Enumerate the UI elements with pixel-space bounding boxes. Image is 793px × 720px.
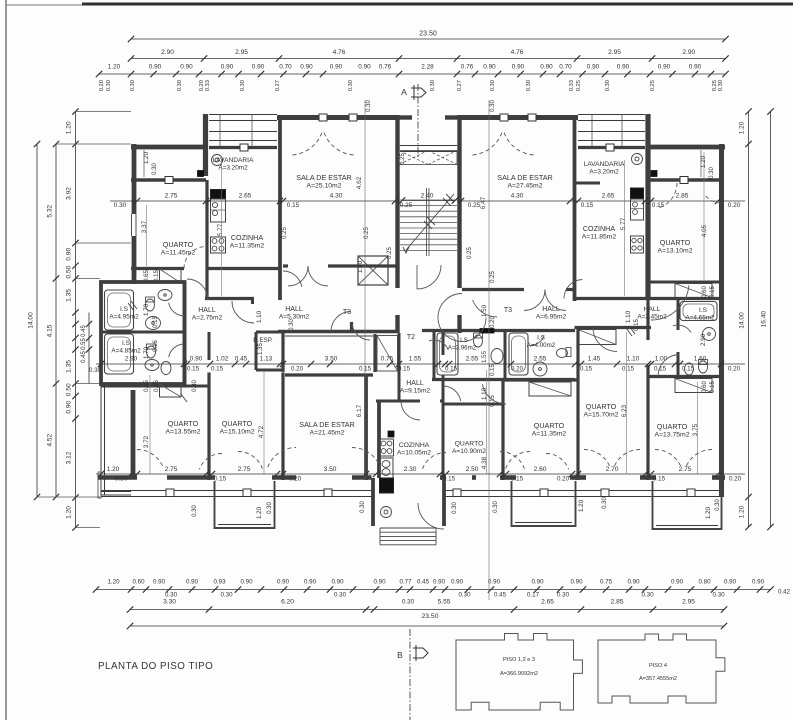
dim chain top small labels — [108, 64, 702, 71]
svg-text:1.70: 1.70 — [143, 303, 150, 316]
svg-text:A=21.45m2: A=21.45m2 — [310, 430, 345, 437]
bath block outline left — [101, 282, 185, 384]
dim chain bottom small labels — [107, 579, 764, 586]
door arc entry — [418, 503, 444, 529]
dim chain top segments — [128, 49, 729, 62]
room label QUARTO 10.90 — [452, 441, 486, 456]
svg-text:0.15: 0.15 — [154, 270, 160, 282]
svg-text:A=366.9092m2: A=366.9092m2 — [500, 671, 538, 677]
label T2 — [407, 334, 415, 341]
door arc isR door — [673, 325, 691, 332]
svg-text:0.55: 0.55 — [81, 338, 87, 350]
dim chain bottom small line — [96, 589, 771, 591]
dim chain top total 23.50 — [128, 31, 729, 43]
wall t2 hall left — [398, 333, 401, 401]
svg-text:0.15: 0.15 — [154, 380, 160, 392]
door arc quarto13.10b — [706, 196, 721, 203]
svg-text:23.50: 23.50 — [421, 613, 438, 620]
svg-text:HALL: HALL — [542, 306, 560, 313]
svg-text:0.90: 0.90 — [331, 579, 344, 586]
svg-text:2.55: 2.55 — [534, 356, 547, 363]
svg-text:0.30: 0.30 — [240, 80, 246, 91]
svg-text:0.25: 0.25 — [467, 247, 473, 259]
svg-text:0.90: 0.90 — [724, 579, 737, 586]
door arc quarto13.10 dashed — [658, 183, 677, 208]
svg-text:0.90: 0.90 — [330, 64, 343, 71]
svg-text:2.75: 2.75 — [238, 466, 251, 473]
wall hall5.30 bottom — [278, 322, 397, 336]
sink IS 4.00 — [533, 362, 547, 376]
wall bottom facade seg4 — [575, 475, 656, 480]
door arc quarto1135 door — [482, 384, 506, 404]
room label LAVANDARIA right — [584, 161, 625, 176]
svg-text:0.60: 0.60 — [702, 381, 708, 393]
door arc is400 door — [530, 336, 544, 346]
room label IS 4.85 — [89, 340, 141, 374]
svg-text:HALL: HALL — [285, 306, 303, 313]
dim chain right 14.00 — [739, 141, 752, 500]
dim chain top small ticks — [96, 71, 729, 77]
dim chain left col3 sub 0.45/0.55 — [81, 313, 92, 384]
balcony left strip railing — [98, 385, 131, 498]
wall hall5.30 top (sala bottom) — [283, 264, 399, 267]
room label LAVANDARIA left — [213, 157, 254, 172]
svg-text:6.17: 6.17 — [356, 404, 363, 417]
figure PISO 4 labels — [639, 663, 677, 682]
svg-text:0.42: 0.42 — [778, 589, 791, 596]
svg-text:T2: T2 — [407, 334, 415, 341]
svg-text:0.30: 0.30 — [402, 599, 415, 606]
wall quarto1 bottom / hall top — [131, 267, 280, 270]
svg-text:PISO 1,2 e 3: PISO 1,2 e 3 — [503, 657, 535, 663]
wall hall2.45/IS divider — [677, 299, 680, 378]
svg-text:1.20: 1.20 — [578, 499, 585, 512]
svg-text:0.90: 0.90 — [627, 579, 640, 586]
svg-text:0.90: 0.90 — [451, 579, 464, 586]
wall quarto2 left upper — [131, 390, 135, 420]
door arc quarto1090 balcony — [500, 452, 524, 469]
svg-text:0.25: 0.25 — [400, 202, 413, 209]
svg-text:0.90: 0.90 — [671, 579, 684, 586]
section marker B — [397, 629, 428, 720]
svg-text:I.S: I.S — [460, 337, 468, 344]
wall bottom facade seg2 — [272, 475, 372, 480]
svg-text:A=357.4555m2: A=357.4555m2 — [639, 676, 677, 682]
svg-text:A=11.35m2: A=11.35m2 — [532, 431, 567, 438]
svg-text:0.77: 0.77 — [399, 579, 412, 586]
svg-text:0.60: 0.60 — [702, 286, 708, 298]
wall hall2.45 left — [646, 299, 649, 480]
svg-text:0.30: 0.30 — [493, 501, 499, 513]
closet quarto15.70 — [578, 330, 616, 345]
wall left protruding pier top-left — [198, 114, 206, 177]
svg-text:5.32: 5.32 — [47, 204, 54, 217]
svg-text:0.30: 0.30 — [557, 592, 570, 599]
svg-text:1.10: 1.10 — [627, 356, 640, 363]
elevator shaft — [358, 256, 388, 285]
room label COZINHA 11.35 — [230, 233, 265, 250]
bath center divider — [504, 331, 507, 380]
figure PISO 1,2 e 3 labels — [500, 657, 538, 677]
svg-text:2.85: 2.85 — [611, 599, 624, 606]
svg-text:0.90: 0.90 — [304, 579, 317, 586]
dim texts top row — [114, 193, 741, 210]
svg-text:0.90: 0.90 — [221, 64, 234, 71]
svg-text:2.65: 2.65 — [239, 193, 252, 200]
door arc cozinha1 door — [232, 301, 254, 323]
stair core left wall — [395, 115, 399, 333]
svg-text:A=4.85m2: A=4.85m2 — [111, 348, 141, 355]
svg-text:3.50: 3.50 — [325, 356, 338, 363]
svg-text:4.05: 4.05 — [701, 224, 708, 237]
figure PISO 4 outline — [598, 634, 725, 703]
svg-text:0.90: 0.90 — [540, 64, 553, 71]
svg-text:3.75: 3.75 — [692, 423, 699, 436]
pedestal sink IS1 — [146, 317, 161, 330]
room label QUARTO 15.10 — [220, 419, 255, 436]
svg-text:4.62: 4.62 — [356, 176, 363, 189]
svg-text:0.20: 0.20 — [729, 476, 742, 483]
door arc cozinha10 door — [401, 401, 420, 420]
svg-text:14.00: 14.00 — [28, 312, 35, 329]
svg-text:A=11.35m2: A=11.35m2 — [230, 243, 265, 250]
stair skylight dashed box — [399, 151, 457, 165]
svg-text:A=9.15m2: A=9.15m2 — [400, 388, 431, 395]
svg-text:0.15: 0.15 — [710, 286, 716, 298]
label T3 right — [504, 307, 512, 314]
bath block center bottom wall — [432, 378, 575, 381]
svg-text:LAVANDARIA: LAVANDARIA — [213, 157, 254, 164]
window band bottom 1 — [101, 489, 372, 497]
svg-text:0.75: 0.75 — [381, 356, 394, 363]
svg-text:0.90: 0.90 — [66, 248, 73, 261]
svg-text:1.45: 1.45 — [588, 356, 601, 363]
balcony railing lavandaria right — [578, 115, 645, 152]
svg-text:0.45: 0.45 — [235, 356, 248, 363]
svg-text:4.30: 4.30 — [330, 193, 343, 200]
sink IS right — [703, 328, 716, 341]
wall left facade upper — [132, 144, 137, 284]
svg-text:0.30: 0.30 — [220, 592, 233, 599]
svg-text:QUARTO: QUARTO — [163, 240, 194, 249]
svg-text:2.90: 2.90 — [682, 49, 695, 56]
svg-text:0.45: 0.45 — [81, 351, 87, 363]
svg-text:0.30: 0.30 — [605, 80, 611, 91]
svg-text:1.35: 1.35 — [66, 289, 73, 302]
svg-text:0.15: 0.15 — [580, 366, 593, 373]
svg-text:0.90: 0.90 — [483, 64, 496, 71]
room label IS right — [685, 307, 715, 322]
wall cozinha/sala divider — [278, 117, 282, 300]
svg-text:3.30: 3.30 — [163, 599, 176, 606]
room label HALL 5.30 — [279, 306, 310, 321]
wall quarto3/sala divider — [281, 373, 284, 481]
svg-text:0.30: 0.30 — [602, 497, 608, 509]
svg-text:A=4.95m2: A=4.95m2 — [109, 314, 139, 321]
svg-text:A=3.20m2: A=3.20m2 — [218, 165, 248, 172]
svg-text:2.90: 2.90 — [161, 49, 174, 56]
svg-text:HALL: HALL — [643, 306, 660, 313]
svg-text:A=27.45m2: A=27.45m2 — [508, 183, 543, 190]
window left facade quarto1 — [130, 214, 138, 236]
svg-text:1.35: 1.35 — [66, 360, 73, 373]
svg-text:0.90: 0.90 — [512, 64, 525, 71]
svg-text:0.50: 0.50 — [66, 265, 73, 278]
wall left recess parapet — [131, 177, 206, 184]
svg-text:QUARTO: QUARTO — [657, 422, 688, 431]
dim line interior top row — [110, 198, 745, 204]
bathtub IS2 — [105, 334, 134, 374]
svg-text:0.15: 0.15 — [398, 366, 411, 373]
door arc sala25 balcony dashed — [290, 133, 356, 155]
room label IS 4.95 — [109, 306, 139, 321]
room label QUARTO 13.10 — [658, 238, 693, 255]
svg-text:1.55: 1.55 — [481, 350, 488, 363]
svg-text:2.75: 2.75 — [679, 466, 692, 473]
stair landing door arc — [417, 265, 441, 289]
balcony box quarto11.35 — [512, 481, 576, 526]
wall quarto13.10 bottom — [648, 281, 722, 284]
svg-text:0.30: 0.30 — [192, 380, 198, 392]
svg-text:0.30: 0.30 — [192, 505, 198, 517]
svg-text:0.20: 0.20 — [99, 80, 105, 91]
left chain horizontal guide lines — [37, 112, 131, 528]
svg-text:2.50: 2.50 — [466, 466, 479, 473]
room label SALA DE ESTAR 21.45 — [299, 420, 354, 437]
svg-text:0.15: 0.15 — [511, 476, 524, 483]
svg-text:0.90: 0.90 — [752, 579, 765, 586]
dim line interior mid row — [96, 361, 745, 367]
svg-text:0.45: 0.45 — [81, 325, 87, 337]
svg-text:3.72: 3.72 — [143, 435, 150, 448]
room label QUARTO 13.55 — [166, 419, 201, 436]
svg-text:0.90: 0.90 — [658, 64, 671, 71]
dim chain bottom small sublabels — [165, 589, 791, 599]
entry steps — [380, 528, 436, 545]
svg-text:0.17: 0.17 — [527, 592, 540, 599]
svg-text:0.15: 0.15 — [581, 202, 594, 209]
svg-text:0.27: 0.27 — [275, 80, 281, 91]
wall quarto10.90 top — [443, 403, 503, 406]
svg-text:0.65: 0.65 — [144, 380, 150, 392]
svg-text:QUARTO: QUARTO — [586, 402, 617, 411]
svg-text:0.90: 0.90 — [570, 579, 583, 586]
wall quarto11.35 top — [503, 378, 578, 381]
break marks — [128, 301, 635, 402]
svg-text:2.90: 2.90 — [125, 356, 138, 363]
svg-text:0.25: 0.25 — [282, 227, 288, 239]
wall quarto2/quarto3 divider — [207, 373, 210, 481]
svg-text:A=13.55m2: A=13.55m2 — [166, 429, 201, 436]
svg-text:0.30: 0.30 — [709, 167, 715, 179]
door arc hall275 to quarto — [187, 279, 208, 300]
svg-text:A=2.75m2: A=2.75m2 — [192, 315, 223, 322]
dim rotated verticals top area — [141, 151, 715, 273]
svg-text:1.20: 1.20 — [66, 121, 73, 134]
door arc bath2 door — [169, 344, 185, 357]
svg-text:2.60: 2.60 — [534, 466, 547, 473]
svg-text:2.95: 2.95 — [235, 49, 248, 56]
svg-text:D.ESP.: D.ESP. — [253, 337, 273, 344]
wall sala2 bottom (hall6.95 top) — [462, 288, 575, 291]
vertical thin dim line sala right — [488, 100, 490, 600]
svg-text:0.30: 0.30 — [165, 592, 178, 599]
svg-text:1.40: 1.40 — [357, 260, 364, 273]
svg-text:0.20: 0.20 — [291, 366, 304, 373]
svg-text:A: A — [401, 87, 407, 97]
wall bottom facade seg3 — [440, 475, 578, 480]
svg-text:COZINHA: COZINHA — [583, 224, 616, 233]
toilet IS2 — [147, 344, 156, 358]
svg-text:PLANTA DO PISO TIPO: PLANTA DO PISO TIPO — [98, 661, 213, 672]
stair steps — [400, 188, 457, 256]
wall bottom facade seg1 — [98, 475, 215, 480]
svg-text:1.60: 1.60 — [694, 356, 707, 363]
svg-text:A=2.45m2: A=2.45m2 — [637, 314, 667, 321]
svg-text:0.30: 0.30 — [452, 502, 458, 514]
door arc cozinha10 balcony — [423, 452, 447, 468]
label 0.30 rotated above salas — [366, 100, 496, 112]
bathtub IS1 — [105, 290, 134, 330]
closet quarto13.10 — [675, 284, 712, 298]
svg-text:0.33: 0.33 — [205, 80, 211, 91]
svg-text:0.90: 0.90 — [66, 400, 73, 413]
wall bottom facade seg5 — [712, 475, 725, 480]
svg-text:1.70: 1.70 — [143, 346, 150, 359]
svg-text:2.55: 2.55 — [466, 356, 479, 363]
washer lavandaria right — [632, 154, 643, 165]
svg-text:0.15: 0.15 — [652, 202, 665, 209]
figure PISO 1,2 e 3 outline — [456, 634, 582, 711]
door arc hall245 entry — [651, 285, 689, 320]
bath divider wall — [101, 331, 185, 334]
sink IS 3.96 — [491, 349, 503, 364]
entry porch walls — [373, 478, 444, 526]
svg-text:0.15: 0.15 — [359, 366, 372, 373]
svg-text:0.45: 0.45 — [417, 579, 430, 586]
room label QUARTO 15.70 — [584, 402, 619, 419]
svg-text:0.25: 0.25 — [400, 153, 406, 165]
svg-text:0.30: 0.30 — [130, 80, 136, 91]
wall sala balcony front right — [458, 114, 578, 121]
svg-text:0.93: 0.93 — [213, 579, 226, 586]
svg-text:0.90: 0.90 — [149, 64, 162, 71]
svg-text:QUARTO: QUARTO — [222, 419, 253, 428]
wall top facade right corner — [649, 145, 725, 150]
wall quarto15.70 top — [575, 326, 652, 329]
svg-text:3.50: 3.50 — [324, 466, 337, 473]
sink IS1 — [158, 290, 172, 301]
svg-text:2.85: 2.85 — [676, 193, 689, 200]
recess dim lines — [144, 150, 701, 177]
svg-text:1.20: 1.20 — [739, 505, 746, 518]
svg-text:14.00: 14.00 — [739, 312, 746, 329]
svg-text:HALL: HALL — [406, 380, 424, 387]
svg-text:0.90: 0.90 — [186, 579, 199, 586]
svg-text:A=15.10m2: A=15.10m2 — [220, 429, 255, 436]
dim line interior bottom row — [96, 471, 745, 477]
kitchen right stove — [631, 188, 644, 199]
wall top facade left corner — [131, 145, 206, 150]
svg-text:0.30: 0.30 — [115, 476, 128, 483]
svg-text:0.90: 0.90 — [153, 579, 166, 586]
toilet IS right — [699, 360, 708, 374]
door arc sala25 double doors — [288, 266, 328, 286]
svg-text:1.20: 1.20 — [66, 506, 73, 519]
door arc quarto1090 door — [443, 386, 461, 401]
svg-text:0.15: 0.15 — [622, 366, 635, 373]
stair core top window — [400, 146, 457, 152]
svg-text:QUARTO: QUARTO — [660, 238, 691, 247]
svg-text:0.25: 0.25 — [576, 80, 582, 91]
svg-text:6.20: 6.20 — [281, 599, 294, 606]
dim chain right 1.20 bottom — [739, 497, 752, 530]
svg-text:COZINHA: COZINHA — [231, 233, 264, 242]
wall lav2/cozinha2 stub — [575, 182, 601, 185]
dim chain top small line — [99, 73, 726, 75]
door arc sala21 balcony dashed — [268, 448, 380, 468]
title PLANTA DO PISO TIPO — [98, 661, 213, 672]
svg-text:QUARTO: QUARTO — [168, 419, 199, 428]
wall quarto11.35 left — [501, 380, 504, 480]
vent duct black — [480, 329, 494, 334]
door arc bath1 door — [169, 303, 185, 316]
svg-text:A=3.20m2: A=3.20m2 — [589, 169, 619, 176]
closet band below bath — [101, 384, 209, 397]
svg-text:2.30: 2.30 — [404, 466, 417, 473]
svg-text:0.70: 0.70 — [559, 64, 572, 71]
svg-text:PISO 4: PISO 4 — [649, 663, 667, 669]
svg-text:0.25: 0.25 — [650, 80, 656, 91]
svg-text:A=3.96m2: A=3.96m2 — [448, 345, 477, 352]
svg-text:A=15.70m2: A=15.70m2 — [584, 412, 619, 419]
svg-text:0.30: 0.30 — [526, 80, 532, 91]
sink IS2 — [145, 360, 159, 371]
stair up arrow — [403, 194, 454, 253]
svg-text:0.30: 0.30 — [430, 80, 436, 91]
svg-text:HALL: HALL — [198, 307, 216, 314]
svg-text:0.30: 0.30 — [458, 592, 471, 599]
svg-text:0.30: 0.30 — [177, 80, 183, 91]
toilet IS 4.00 — [557, 348, 572, 358]
svg-text:0.30: 0.30 — [114, 202, 127, 209]
svg-text:A=10.05m2: A=10.05m2 — [397, 450, 431, 457]
dim chain left col2 — [47, 141, 60, 500]
door arc t3 left door — [331, 312, 370, 341]
svg-text:QUARTO: QUARTO — [534, 421, 565, 430]
svg-text:1.20: 1.20 — [107, 466, 120, 473]
door arc quarto1570 balcony — [584, 450, 640, 468]
bidet IS2 — [161, 362, 171, 375]
svg-text:2.75: 2.75 — [165, 193, 178, 200]
svg-text:2.90: 2.90 — [700, 333, 707, 346]
toilet IS1 — [146, 297, 155, 311]
svg-text:0.80: 0.80 — [698, 579, 711, 586]
svg-text:0.33: 0.33 — [569, 80, 575, 91]
svg-text:2.40: 2.40 — [421, 193, 434, 200]
wall below bath divider vertical — [208, 332, 211, 360]
svg-text:LAVANDARIA: LAVANDARIA — [584, 161, 625, 168]
bath block right wall — [183, 282, 187, 384]
svg-text:COZINHA: COZINHA — [399, 442, 430, 449]
svg-text:2.65: 2.65 — [541, 599, 554, 606]
kitchen right sink unit — [631, 199, 644, 220]
svg-text:0.20: 0.20 — [728, 366, 741, 373]
svg-text:0.20: 0.20 — [557, 476, 570, 483]
svg-text:A=11.85m2: A=11.85m2 — [582, 234, 617, 241]
door arc quarto1375 door — [658, 355, 679, 377]
svg-text:0.30: 0.30 — [289, 319, 295, 331]
